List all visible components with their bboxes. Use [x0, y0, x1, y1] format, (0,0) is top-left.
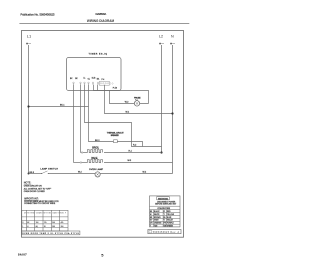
svg-text:PROBE: PROBE	[134, 98, 141, 100]
timer connector sub-box P	[99, 81, 109, 85]
probe receptacle symbol	[134, 101, 139, 106]
color code header	[150, 205, 181, 207]
svg-text:150: 150	[36, 222, 39, 224]
svg-text:300: 300	[52, 226, 55, 228]
svg-text:PURPLE: PURPLE	[167, 223, 175, 225]
bake element left lead	[74, 162, 88, 164]
wire timer drop G to neutral	[105, 85, 173, 114]
svg-text:ALL CONTROL SET TO "OFF": ALL CONTROL SET TO "OFF"	[24, 187, 52, 190]
junction lamp wire at L1	[28, 173, 30, 175]
wire L2 bus vertical	[161, 45, 163, 153]
oven lamp wire	[29, 173, 42, 175]
thermal circuit breaker body	[114, 140, 118, 143]
svg-text:BROIL: BROIL	[92, 147, 100, 149]
timer EOC box	[67, 58, 122, 91]
svg-text:NOTE:: NOTE:	[24, 181, 32, 184]
node N terminal mark	[170, 43, 172, 45]
wire timer drop A to broil	[73, 85, 75, 163]
wire L1 feed horizontal	[29, 106, 89, 108]
svg-text:1: 1	[22, 226, 23, 228]
svg-text:YELLOW: YELLOW	[167, 214, 174, 216]
revision box	[148, 230, 181, 234]
svg-text:275: 275	[44, 222, 47, 224]
temperature chart bottom strip	[22, 231, 80, 235]
svg-text:IMPORTANT:: IMPORTANT:	[24, 197, 39, 200]
node L1 terminal mark	[26, 43, 28, 45]
svg-text:BROWN: BROWN	[154, 217, 161, 219]
svg-text:LAMP SWITCH: LAMP SWITCH	[40, 168, 58, 171]
svg-text:VIOLET: VIOLET	[167, 220, 173, 222]
warning color-code table	[150, 196, 181, 227]
svg-text:FES365ASA: FES365ASA	[96, 12, 107, 16]
temperature chart cell text	[22, 222, 63, 228]
svg-text:30: 30	[44, 226, 46, 228]
lamp switch symbol	[42, 171, 48, 174]
title underline	[19, 23, 189, 25]
svg-text:GREEN: GREEN	[167, 226, 174, 228]
wire probe branch	[110, 91, 149, 104]
svg-text:OL: OL	[88, 79, 90, 81]
svg-text:L1: L1	[27, 33, 32, 38]
color code grid	[150, 210, 181, 227]
svg-text:N: N	[171, 34, 174, 38]
timer terminal circles	[73, 82, 99, 84]
broil element terminal circle	[81, 152, 83, 154]
main border frame	[22, 31, 184, 238]
svg-text:OVEN DOOR CLOSED: OVEN DOOR CLOSED	[24, 191, 46, 193]
svg-text:T: T	[150, 226, 151, 228]
svg-text:ORANGE: ORANGE	[154, 222, 162, 225]
svg-text:OVEN DOOR TEMP F UL STYLE CSA: OVEN DOOR TEMP F UL STYLE CSA STYLE	[22, 232, 79, 235]
timer terminal labels	[70, 77, 100, 80]
svg-text:425: 425	[61, 222, 64, 224]
svg-text:TIMER ES-IQ: TIMER ES-IQ	[89, 54, 108, 56]
svg-text:S: S	[22, 222, 23, 224]
svg-text:Publication No. 5995456625: Publication No. 5995456625	[21, 12, 56, 16]
svg-text:BEFORE SERVICING UNIT: BEFORE SERVICING UNIT	[155, 204, 176, 206]
wire timer drop D through breaker	[89, 85, 143, 147]
svg-text:L2: L2	[159, 34, 163, 38]
bake element terminal circle	[80, 162, 82, 164]
svg-text:BREAKER: BREAKER	[111, 134, 119, 137]
svg-text:5995456625 Rev. A: 5995456625 Rev. A	[153, 231, 180, 234]
timer connector pins	[100, 83, 109, 84]
wire N bus vertical	[172, 45, 174, 174]
warning title box	[157, 197, 170, 200]
color code rows	[150, 210, 175, 228]
svg-text:L1: L1	[83, 77, 85, 79]
svg-text:9A/07: 9A/07	[18, 254, 27, 257]
timer terminal stubs	[74, 84, 99, 85]
broil element right lead to L2	[104, 152, 162, 154]
wire timer drop E to probe top	[94, 85, 149, 104]
oven lamp symbol	[95, 172, 100, 177]
svg-text:350: 350	[61, 226, 64, 228]
svg-text:350: 350	[52, 222, 55, 224]
broil element coil	[88, 150, 103, 153]
wire timer drop B to bake	[80, 85, 82, 153]
junction L2 bus	[160, 151, 162, 153]
svg-text:BLACK: BLACK	[154, 210, 160, 213]
svg-text:WARNING: WARNING	[158, 197, 168, 200]
bake element coil	[88, 160, 103, 163]
svg-text:P-4: P-4	[102, 79, 105, 81]
wire lamp mid	[48, 173, 95, 175]
wire timer drop F stub	[97, 85, 99, 91]
svg-text:OVEN LAMP: OVEN LAMP	[89, 168, 104, 171]
wire L1 bus vertical	[28, 45, 30, 174]
node L2 terminal mark	[159, 43, 161, 45]
wire lamp to N	[100, 173, 173, 175]
wire timer drop C staircase to L2	[85, 85, 162, 147]
broil element left lead	[81, 152, 88, 154]
temperature chart table	[22, 210, 68, 231]
timer connector plug marks	[111, 82, 114, 84]
svg-text:WIRING DIAGRAM: WIRING DIAGRAM	[87, 19, 114, 23]
bake element right lead to N	[104, 162, 173, 164]
junction N bus	[171, 112, 173, 114]
svg-text:WHITE: WHITE	[154, 214, 160, 216]
junction L1 feed	[27, 105, 29, 107]
svg-text:BL: BL	[164, 217, 166, 219]
svg-text:CONNECTING TO CIRCUIT WIRE: CONNECTING TO CIRCUIT WIRE	[24, 203, 56, 205]
